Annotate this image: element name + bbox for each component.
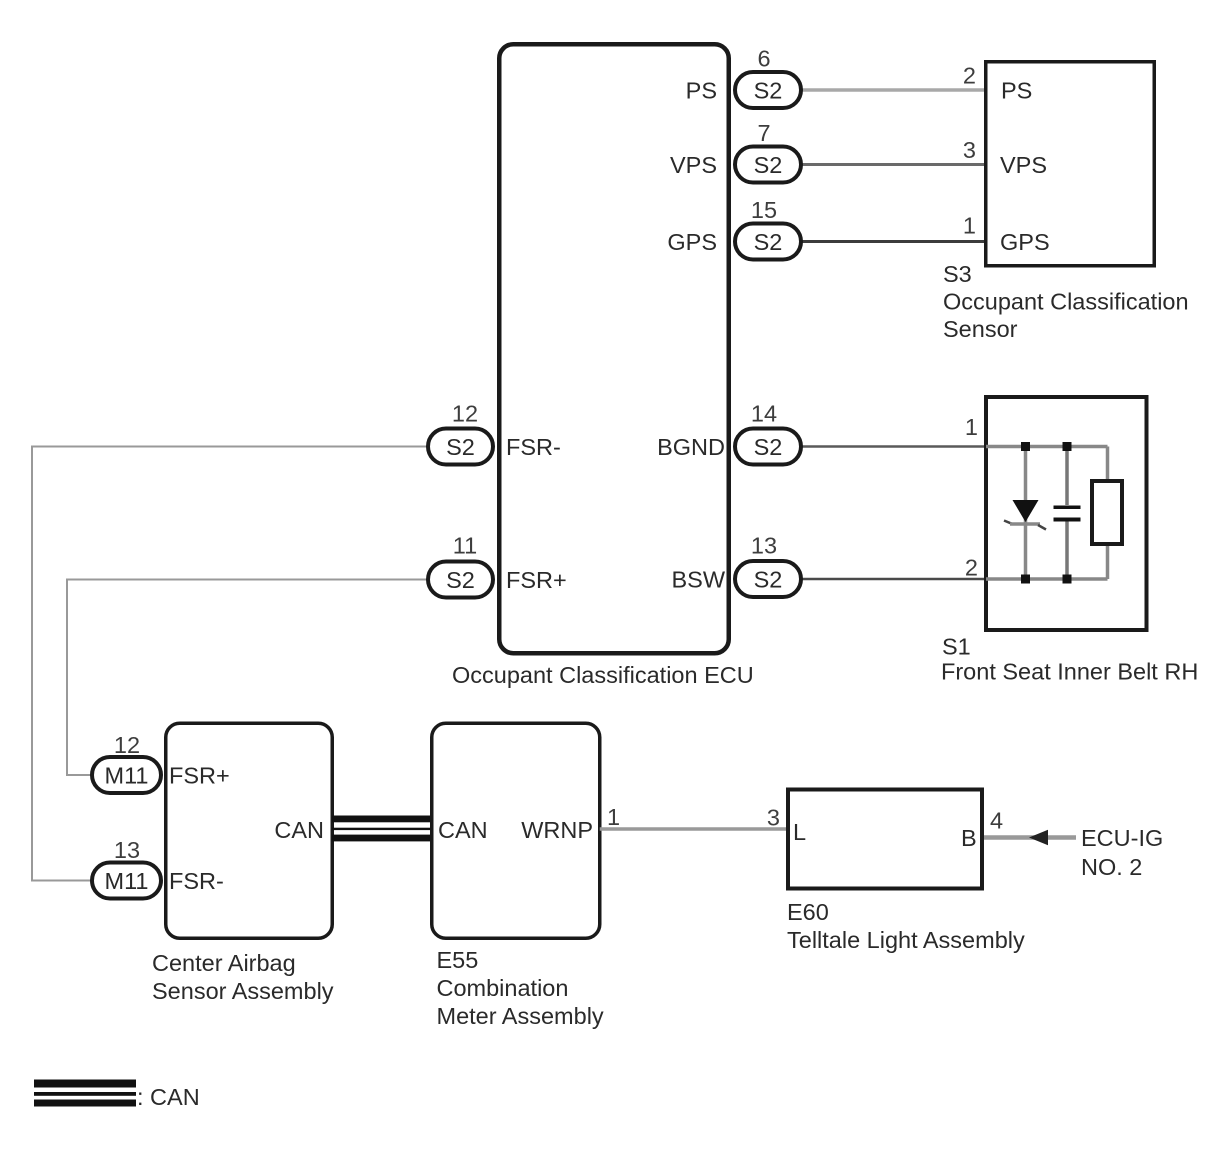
svg-text:3: 3 xyxy=(767,805,780,831)
svg-text:PS: PS xyxy=(686,78,717,104)
svg-text:12: 12 xyxy=(452,401,478,427)
svg-text:13: 13 xyxy=(114,837,140,863)
svg-text:S2: S2 xyxy=(754,152,783,178)
svg-text:S2: S2 xyxy=(754,434,783,460)
svg-text:Occupant Classification ECU: Occupant Classification ECU xyxy=(452,662,754,688)
svg-text:Sensor: Sensor xyxy=(943,316,1018,342)
svg-text:M11: M11 xyxy=(105,763,149,789)
svg-text:S2: S2 xyxy=(446,434,475,460)
svg-text:15: 15 xyxy=(751,197,777,223)
svg-text:FSR-: FSR- xyxy=(506,434,561,460)
svg-text:NO. 2: NO. 2 xyxy=(1081,854,1142,880)
svg-text:6: 6 xyxy=(757,46,770,72)
svg-text:VPS: VPS xyxy=(1000,152,1047,178)
svg-text:Combination: Combination xyxy=(437,975,569,1001)
svg-text:VPS: VPS xyxy=(670,152,717,178)
svg-text:CAN: CAN xyxy=(274,817,324,843)
svg-text:WRNP: WRNP xyxy=(521,817,593,843)
svg-text:14: 14 xyxy=(751,401,777,427)
svg-text:1: 1 xyxy=(965,414,978,440)
svg-text:Front Seat Inner Belt RH: Front Seat Inner Belt RH xyxy=(941,659,1198,685)
svg-text:S2: S2 xyxy=(446,567,475,593)
svg-text:7: 7 xyxy=(757,120,770,146)
svg-text:Sensor Assembly: Sensor Assembly xyxy=(152,978,334,1004)
svg-text:E60: E60 xyxy=(787,899,829,925)
svg-text:1: 1 xyxy=(963,213,976,239)
svg-text:Center Airbag: Center Airbag xyxy=(152,950,296,976)
svg-text:FSR+: FSR+ xyxy=(506,567,567,593)
svg-text:3: 3 xyxy=(963,137,976,163)
svg-text:M11: M11 xyxy=(105,868,149,894)
svg-text:Occupant Classification: Occupant Classification xyxy=(943,289,1189,315)
svg-text:S2: S2 xyxy=(754,78,783,104)
svg-text:Telltale Light Assembly: Telltale Light Assembly xyxy=(787,927,1025,953)
svg-text:S3: S3 xyxy=(943,261,972,287)
svg-text:Meter Assembly: Meter Assembly xyxy=(437,1003,604,1029)
svg-text:B: B xyxy=(961,825,977,851)
svg-text:S1: S1 xyxy=(942,634,971,660)
svg-text:1: 1 xyxy=(607,804,620,830)
svg-text:4: 4 xyxy=(990,808,1003,834)
svg-text:13: 13 xyxy=(751,533,777,559)
svg-text:E55: E55 xyxy=(437,947,479,973)
svg-text:PS: PS xyxy=(1001,78,1032,104)
svg-text:11: 11 xyxy=(453,533,477,559)
svg-text:12: 12 xyxy=(114,732,140,758)
svg-text:2: 2 xyxy=(965,555,978,581)
svg-text:S2: S2 xyxy=(754,229,783,255)
svg-text:L: L xyxy=(793,819,806,845)
svg-text:2: 2 xyxy=(963,63,976,89)
svg-text:CAN: CAN xyxy=(438,817,488,843)
svg-text:: CAN: : CAN xyxy=(137,1084,200,1110)
svg-text:FSR-: FSR- xyxy=(169,868,224,894)
svg-text:BGND: BGND xyxy=(657,434,725,460)
svg-text:S2: S2 xyxy=(754,567,783,593)
svg-text:GPS: GPS xyxy=(667,229,717,255)
svg-text:ECU-IG: ECU-IG xyxy=(1081,825,1163,851)
svg-text:BSW: BSW xyxy=(671,567,725,593)
svg-text:FSR+: FSR+ xyxy=(169,763,230,789)
svg-text:GPS: GPS xyxy=(1000,229,1050,255)
